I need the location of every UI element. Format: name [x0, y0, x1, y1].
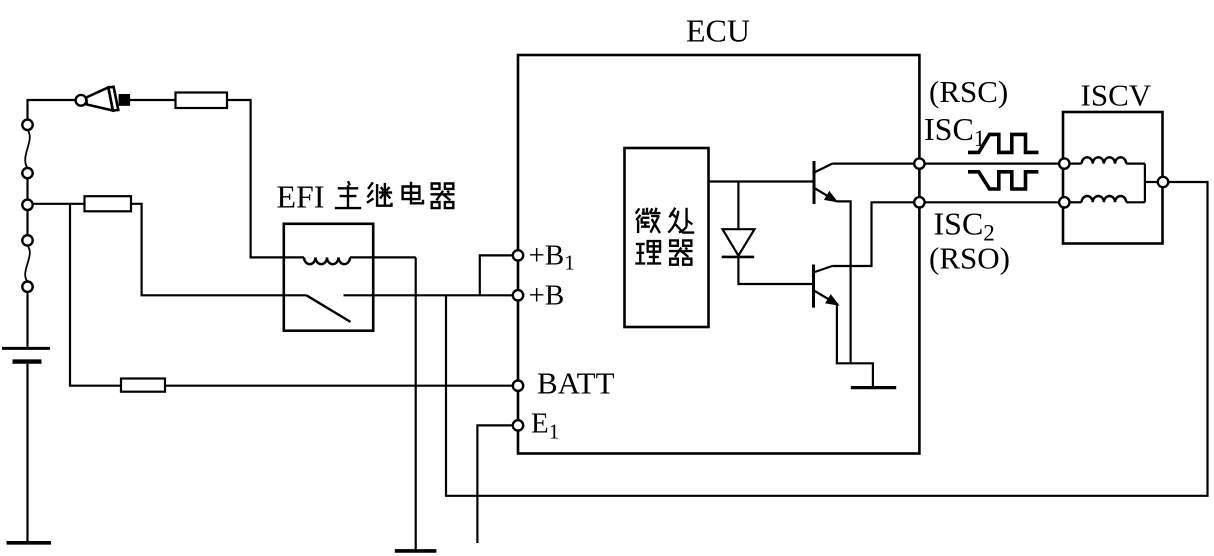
waveform ISC2 (RSO pulse train) — [968, 172, 1038, 189]
wire Q2 collector to ISC2 node — [832, 202, 915, 266]
svg-text:BATT: BATT — [537, 366, 615, 401]
relay box EFI main relay — [284, 224, 373, 331]
fuse F2 — [85, 196, 132, 211]
label 器 (relay caption char 4) — [431, 184, 455, 209]
ground (ECU output stage) — [851, 386, 896, 389]
wire +B to ISCV return loop — [446, 182, 1208, 496]
wire ISCV coils common — [1145, 164, 1158, 203]
wire switch to fuse F1 — [130, 99, 176, 101]
wire Q1 emitter to ground bus — [837, 201, 851, 363]
svg-text:(RSO): (RSO) — [929, 241, 1010, 276]
terminal +B1 — [513, 250, 523, 260]
label ISCV — [1081, 78, 1152, 113]
wire F1 to relay coil — [227, 100, 304, 257]
ignition switch SW1 (key) — [76, 87, 131, 111]
label 器 (microprocessor caption char 4) — [669, 240, 693, 264]
svg-text:ECU: ECU — [686, 13, 750, 49]
wire relay coil to ground — [415, 257, 417, 549]
transistor Q2 — [814, 265, 838, 308]
svg-text:ISCV: ISCV — [1081, 78, 1152, 113]
ECU box — [518, 55, 919, 454]
svg-text:ISC2: ISC2 — [934, 206, 995, 246]
label (RSO) — [929, 241, 1010, 276]
label (RSC) — [929, 74, 1008, 109]
battery B1 — [2, 348, 50, 361]
label ISC1 — [924, 111, 985, 151]
svg-text:ISC1: ISC1 — [924, 111, 985, 151]
wire BATT branch — [70, 204, 121, 386]
label 继 (relay caption char 2) — [367, 182, 392, 205]
label 理 (microprocessor caption char 3) — [635, 241, 661, 263]
label BATT — [537, 366, 615, 401]
relay coil L1 — [304, 257, 416, 264]
transistor Q1 — [814, 161, 837, 204]
node junction (rail to fuse feeds) — [22, 200, 32, 210]
wire battery negative to ground — [26, 364, 28, 542]
wire battery positive rail — [26, 105, 28, 347]
wire Q2 emitter to ground — [836, 305, 873, 387]
ISCV terminal 2 — [1059, 197, 1069, 207]
label ECU — [686, 13, 750, 49]
label 主 (relay caption char 1) — [335, 181, 361, 208]
fuse F1 — [176, 93, 228, 109]
wire ISC1 to ISCV — [925, 163, 1060, 165]
label 微 (microprocessor caption char 1) — [636, 208, 661, 233]
label 处 (microprocessor caption char 2) — [668, 208, 694, 233]
label +B — [529, 280, 565, 312]
ISCV box — [1063, 112, 1163, 244]
fusible link FL1 — [22, 120, 32, 179]
inductor L2 ISCV coil 1 — [1070, 157, 1145, 163]
node ISC2 — [914, 197, 924, 207]
node ISC1 — [914, 158, 924, 168]
terminal BATT — [513, 381, 523, 391]
wire ignition feed — [28, 100, 76, 105]
waveform ISC1 (RSC pulse train) — [968, 134, 1038, 152]
wire Q1 collector to ISC1 node — [832, 163, 915, 165]
label 电 (relay caption char 3) — [403, 182, 423, 204]
wire ISC2 to ISCV — [925, 201, 1060, 203]
terminal E1 — [513, 420, 523, 430]
wire diode to Q2 base — [738, 257, 812, 284]
svg-text:+B1: +B1 — [529, 240, 575, 275]
label E1 — [531, 408, 559, 444]
label ISC2 — [934, 206, 995, 246]
svg-text:+B: +B — [529, 280, 565, 312]
ground (relay coil) — [395, 549, 437, 553]
svg-text:(RSC): (RSC) — [929, 74, 1008, 109]
wire microprocessor to Q1 base — [709, 180, 813, 182]
terminal +B — [513, 290, 523, 300]
wire F2 to relay switch — [131, 204, 306, 295]
diode D1 — [722, 182, 755, 257]
label +B1 — [529, 240, 575, 275]
node ISCV common output — [1158, 177, 1168, 187]
label EFI (latin part of relay caption) — [277, 179, 325, 215]
fuse F3 — [121, 379, 165, 392]
svg-text:E1: E1 — [531, 408, 559, 444]
wire +B1 terminal drop to +B line — [480, 255, 513, 295]
wire junction to fuse F2 — [33, 203, 85, 205]
relay switch contacts — [306, 295, 374, 322]
svg-text:EFI: EFI — [277, 179, 325, 215]
wire relay switch output to +B terminal — [374, 294, 513, 296]
ISCV terminal 1 — [1059, 158, 1069, 168]
ground (battery) — [7, 541, 52, 545]
fusible link FL2 — [22, 235, 32, 292]
microprocessor box U1 — [625, 148, 709, 327]
wire F3 to BATT terminal — [165, 385, 513, 387]
wire E1 to chassis — [477, 425, 513, 543]
inductor L3 ISCV coil 2 — [1070, 196, 1145, 202]
